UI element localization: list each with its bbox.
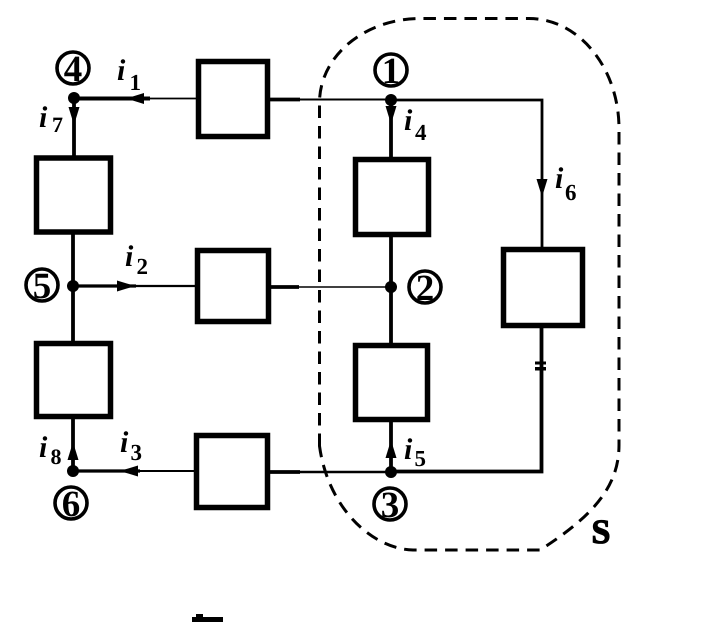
wire right box B8 to bottom corner [391, 328, 542, 472]
element box B4 [37, 344, 111, 417]
node 2 [385, 268, 441, 309]
svg-text:1: 1 [130, 70, 142, 95]
current arrow i6 [537, 179, 548, 197]
current arrow i3 [120, 466, 138, 477]
artifact ticks on right wire [535, 362, 546, 371]
wire left node5 to box B4 [71, 286, 75, 341]
wire mid-column node2 to box B7 [389, 287, 393, 344]
svg-text:5: 5 [415, 446, 427, 471]
node 6 [55, 465, 87, 525]
svg-text:S: S [592, 514, 611, 551]
svg-text:2: 2 [137, 254, 149, 279]
wire top box B1 to node1 [266, 98, 391, 102]
wire left box B2 to node5 [71, 234, 75, 286]
label i7 [39, 101, 63, 137]
wire top node1 to right corner [391, 100, 542, 247]
current arrow i5 [386, 440, 397, 458]
label i5 [404, 433, 426, 471]
svg-text:8: 8 [51, 444, 62, 469]
svg-text:3: 3 [131, 440, 143, 465]
element box B1 [199, 62, 268, 137]
element box B6 [356, 160, 429, 235]
node 5 [26, 266, 79, 307]
element box B5 [197, 436, 268, 508]
svg-text:5: 5 [33, 266, 52, 307]
artifact mark bottom [192, 614, 223, 622]
current arrow i2 [117, 281, 135, 292]
element box B3 [198, 251, 269, 322]
node 3 [374, 466, 406, 526]
svg-text:i: i [404, 433, 413, 466]
current arrow i8 [68, 442, 79, 460]
current arrow i7 [69, 107, 80, 125]
wire mid-column box B7 to node3 [389, 421, 393, 472]
wire bottom box B5 to node3 [266, 470, 391, 474]
wire mid-column box B6 to node2 [389, 236, 393, 287]
node 1 [375, 51, 407, 106]
wire mid-column node1 to box B6 [389, 100, 393, 158]
label i2 [125, 240, 148, 279]
label i8 [39, 431, 62, 469]
svg-text:2: 2 [416, 268, 435, 309]
svg-text:6: 6 [62, 484, 81, 525]
label i4 [404, 104, 427, 145]
surface S boundary [320, 18, 620, 550]
svg-text:i: i [120, 426, 129, 459]
wire left box B4 to node6 [71, 419, 75, 471]
label i6 [555, 162, 577, 205]
svg-text:i: i [117, 54, 126, 87]
element box B7 [356, 346, 428, 420]
wire middle box B3 to node2 [267, 285, 391, 289]
current arrow i4 [386, 106, 397, 124]
wire top node4 to box B1 [74, 97, 200, 101]
element box B8 [504, 250, 583, 326]
svg-text:7: 7 [52, 112, 63, 137]
svg-text:3: 3 [381, 485, 400, 526]
label i3 [120, 426, 142, 465]
wire left node4 to box B2 [72, 98, 76, 156]
wire middle node5 to box B3 [73, 284, 199, 287]
svg-text:4: 4 [64, 49, 83, 90]
label S [592, 514, 611, 551]
wire bottom node6 to box B5 [73, 469, 198, 472]
svg-text:1: 1 [382, 51, 401, 92]
element box B2 [37, 158, 111, 232]
svg-text:i: i [125, 240, 134, 273]
svg-text:i: i [39, 431, 48, 464]
current arrow i1 [126, 93, 144, 104]
svg-text:6: 6 [565, 180, 577, 205]
svg-text:4: 4 [415, 120, 427, 145]
svg-text:i: i [404, 104, 413, 137]
svg-text:i: i [39, 101, 48, 134]
label i1 [117, 54, 141, 95]
svg-text:i: i [555, 162, 564, 195]
node 4 [57, 49, 89, 104]
